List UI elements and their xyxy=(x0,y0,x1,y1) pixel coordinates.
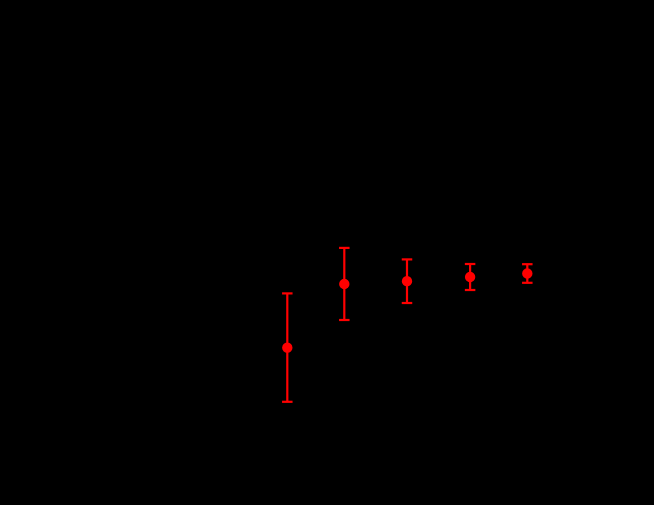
error bar point 4 xyxy=(465,264,476,290)
error bar point 5 xyxy=(522,264,533,283)
marker 1 xyxy=(282,343,292,353)
error bar point 1 xyxy=(282,293,293,401)
wire: vertical error line 1 xyxy=(286,293,288,401)
marker 2 xyxy=(339,279,349,289)
bottom cap 2 xyxy=(339,319,350,321)
error bar point 3 xyxy=(402,259,413,303)
error bar point 2 xyxy=(339,248,350,320)
marker 3 xyxy=(402,276,412,286)
top cap 5 xyxy=(522,263,533,265)
wire: vertical error line 3 xyxy=(406,259,408,303)
bottom cap 1 xyxy=(282,401,293,403)
top cap 1 xyxy=(282,292,293,294)
bottom cap 5 xyxy=(522,282,533,284)
top cap 2 xyxy=(339,247,350,249)
wire: vertical error line 2 xyxy=(343,248,345,320)
bottom cap 4 xyxy=(465,289,476,291)
top cap 3 xyxy=(402,258,413,260)
marker 5 xyxy=(522,268,532,278)
wire: vertical error line 4 xyxy=(469,264,471,290)
marker 4 xyxy=(465,272,475,282)
top cap 4 xyxy=(465,263,476,265)
bottom cap 3 xyxy=(402,302,413,304)
wire: vertical error line 5 xyxy=(526,264,528,283)
